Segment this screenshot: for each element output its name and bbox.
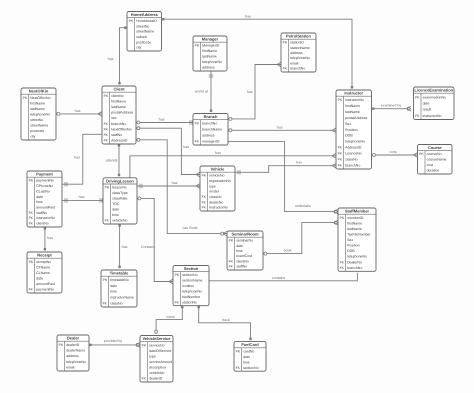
svg-text:seminarNo: seminarNo [236,239,253,243]
svg-text:PK: PK [175,273,180,277]
svg-text:CPhoneNo: CPhoneNo [36,184,53,188]
svg-text:Contains: Contains [141,245,155,249]
svg-text:FK: FK [104,127,109,131]
svg-text:PK: PK [29,179,34,183]
svg-text:branchNo: branchNo [202,122,217,126]
svg-text:type: type [149,354,156,358]
svg-text:FK: FK [338,146,343,150]
svg-text:address: address [290,51,303,55]
svg-text:vehicleNo: vehicleNo [209,174,224,178]
wire Client-Vehicle (has) [136,127,200,177]
entity NextOfKin [21,88,56,140]
svg-text:FK: FK [236,366,241,370]
svg-text:branchNo: branchNo [111,122,126,126]
entity Instructor [336,90,372,169]
svg-text:CFName: CFName [36,265,50,269]
svg-text:postalAddress: postalAddress [345,116,367,120]
svg-text:clientNo: clientNo [36,222,49,226]
svg-text:examinationNo: examinationNo [423,95,446,99]
svg-text:PK: PK [419,152,424,156]
svg-text:sectionNo: sectionNo [243,366,259,370]
svg-text:AddressID: AddressID [345,146,362,150]
svg-text:PK: PK [283,41,288,45]
svg-text:suburb: suburb [136,35,147,39]
svg-text:track: track [222,318,230,322]
svg-text:date: date [236,244,243,248]
svg-text:AddressID: AddressID [111,139,128,143]
svg-text:instructorName: instructorName [110,296,134,300]
svg-text:contains: contains [272,276,286,280]
wire Payment-DrivingLesson (has) [62,195,103,203]
svg-text:courseName: courseName [427,158,447,162]
svg-text:Sex: Sex [347,238,353,242]
svg-text:PK: PK [415,95,420,99]
svg-text:can Book: can Book [183,226,198,230]
svg-text:StaffMember: StaffMember [345,209,370,214]
svg-text:PK: PK [129,19,134,23]
svg-text:FK: FK [29,216,34,220]
svg-text:book: book [284,248,292,252]
svg-text:has: has [247,90,253,94]
svg-text:classNo: classNo [110,301,123,305]
svg-text:instructorNo: instructorNo [423,114,442,118]
svg-text:Section: Section [184,266,199,271]
svg-text:lastName: lastName [30,107,45,111]
svg-text:lastName: lastName [111,105,126,109]
svg-text:paymentNo: paymentNo [36,288,54,292]
entity Receipt [27,252,62,293]
svg-text:works at: works at [195,90,208,94]
svg-text:TOC: TOC [112,202,120,206]
svg-text:PK: PK [340,216,345,220]
wire Section-FuelCard (track) [198,306,252,341]
svg-text:telephoneNo: telephoneNo [66,360,86,364]
svg-text:dealerName: dealerName [66,349,85,353]
svg-text:telephoneNo: telephoneNo [290,56,310,60]
svg-text:duration: duration [427,169,440,173]
svg-text:Receipt: Receipt [37,253,52,258]
svg-text:Timetable: Timetable [110,271,129,276]
svg-text:FuelCard: FuelCard [241,342,259,347]
entity DrivingLesson [103,178,137,224]
svg-text:lastName: lastName [347,227,362,231]
svg-text:time: time [243,360,250,364]
svg-text:date: date [243,355,250,359]
svg-text:dealerID: dealerID [66,343,80,347]
svg-text:description: description [149,365,166,369]
svg-text:date: date [110,284,117,288]
svg-text:lastName: lastName [345,110,360,114]
svg-text:fuelNumber: fuelNumber [182,295,201,299]
svg-text:dealerID: dealerID [149,377,163,381]
svg-text:timetableNo: timetableNo [110,278,129,282]
svg-text:city: city [30,135,35,139]
wire HomeAddress-Instructor (has) [162,14,354,88]
svg-text:memberID: memberID [347,216,364,220]
svg-text:FK: FK [105,219,110,223]
entity Section [173,266,209,306]
svg-text:FK: FK [340,260,345,264]
svg-text:Course: Course [428,145,443,150]
svg-text:runs: runs [390,150,397,154]
svg-text:PK: PK [23,96,28,100]
svg-text:address: address [202,133,215,137]
svg-text:amountPaid: amountPaid [36,282,55,286]
svg-text:email: email [66,366,75,370]
svg-text:stationID: stationID [290,41,304,45]
svg-text:staffNo: staffNo [36,211,47,215]
entity Course [418,145,453,175]
svg-text:Sex: Sex [345,122,351,126]
entity Branch [193,114,228,146]
wire DrivingLesson-Section (Contains) [137,197,173,284]
svg-text:firstName: firstName [345,104,360,108]
svg-text:examCost: examCost [236,254,252,258]
svg-text:type: type [209,184,216,188]
svg-text:PK: PK [195,44,200,48]
svg-text:has: has [183,145,189,149]
svg-text:Vehicle: Vehicle [211,167,226,172]
svg-text:serviceAmount: serviceAmount [149,360,172,364]
svg-text:amountPaid: amountPaid [36,205,55,209]
svg-text:LicenceExamination: LicenceExamination [414,88,453,93]
entity Vehicle [200,166,235,211]
svg-text:cost: cost [427,163,433,167]
svg-text:streetName: streetName [136,30,154,34]
wire Branch-PetrolStation (has) [228,62,281,120]
svg-text:FK: FK [229,265,234,269]
svg-text:has: has [245,14,251,18]
svg-text:city: city [136,46,142,50]
wire Section-VehicleService (owns) [155,306,184,334]
svg-text:FK: FK [229,259,234,263]
svg-text:postcode: postcode [30,129,44,133]
svg-text:streetName: streetName [30,123,48,127]
svg-text:FK: FK [338,152,343,156]
entity PetrolStation [281,33,316,72]
svg-text:provided by: provided by [104,339,123,343]
svg-text:time: time [110,290,117,294]
wire HomeAddress-Client (has) [108,27,127,85]
svg-text:DOB: DOB [347,249,355,253]
svg-text:CLastNo: CLastNo [36,189,50,193]
entity Manager [193,36,227,71]
svg-text:lessonNo: lessonNo [112,186,127,190]
svg-text:model: model [209,190,219,194]
svg-text:has: has [215,151,221,155]
svg-text:LicenceNo: LicenceNo [345,152,362,156]
svg-text:classType: classType [112,191,128,195]
svg-text:firstName: firstName [111,99,126,103]
svg-text:sectionName: sectionName [182,279,202,283]
svg-text:telephoneNo: telephoneNo [182,289,202,293]
svg-text:dateOfService: dateOfService [149,349,171,353]
svg-text:cardNo: cardNo [243,349,254,353]
svg-text:managerID: managerID [202,139,220,143]
wire Branch-Instructor (has) [228,125,336,132]
svg-text:streetNo: streetNo [136,24,149,28]
svg-text:clientNo: clientNo [111,94,124,98]
svg-text:Client: Client [113,87,125,92]
svg-text:VehicleService: VehicleService [142,336,171,341]
svg-text:vehicleNo: vehicleNo [149,371,164,375]
wire Payment-Receipt (has) [44,227,53,251]
wire Client-Branch (has) [136,118,193,125]
svg-text:staffNo: staffNo [236,265,247,269]
svg-text:streetNo: streetNo [30,118,43,122]
entity LicenceExamination [414,87,455,120]
svg-text:PK: PK [142,343,147,347]
svg-text:telephoneNo: telephoneNo [202,60,222,64]
svg-text:FK: FK [103,301,108,305]
svg-text:owns: owns [166,315,175,319]
wire SeminarRoom-StaffMember (book) [263,220,338,255]
svg-text:DrivingLesson: DrivingLesson [106,178,134,183]
svg-text:branchNo: branchNo [345,163,360,167]
svg-text:stationName: stationName [290,46,310,50]
entity StaffMember [338,208,376,271]
svg-text:instructorNo: instructorNo [345,98,364,102]
svg-text:has: has [172,181,178,185]
svg-text:Dealer: Dealer [67,336,80,341]
svg-text:postCode: postCode [136,40,151,44]
wire Instructor-Course (runs) [372,150,418,157]
svg-text:PK: PK [202,174,207,178]
svg-text:telephoneNo: telephoneNo [347,255,367,259]
svg-text:staffNo: staffNo [111,133,122,137]
svg-text:has: has [277,125,283,129]
entity Dealer [57,335,89,371]
wire Client-SeminarRoom (can Book) [136,138,227,236]
svg-text:courseNo: courseNo [427,152,442,156]
svg-text:SeminarRoom: SeminarRoom [231,232,259,237]
svg-text:FK: FK [340,266,345,270]
svg-text:telephoneNo: telephoneNo [345,140,365,144]
svg-text:has: has [79,195,85,199]
svg-text:sectionNo: sectionNo [182,273,198,277]
svg-text:FK: FK [29,222,34,226]
svg-text:Position: Position [347,244,360,248]
svg-text:PK: PK [105,186,110,190]
svg-text:Manager: Manager [202,37,219,42]
wire Instructor-LicenceExamination (examined by) [372,103,412,111]
entity SeminarRoom [227,231,263,270]
svg-text:PK: PK [104,94,109,98]
svg-text:DealerNo: DealerNo [347,260,362,264]
svg-text:firstName: firstName [347,221,362,225]
svg-text:instructorNo: instructorNo [36,216,55,220]
svg-text:sex: sex [111,116,117,120]
wire Manager-Branch (works at) [195,71,213,112]
svg-text:FK: FK [415,114,420,118]
wire NextOfKin-Client (has) [56,109,102,116]
wire Dealer-VehicleService (provided by) [89,339,140,347]
svg-text:Payment: Payment [36,172,53,177]
svg-text:FK: FK [104,133,109,137]
svg-text:vehicleNo: vehicleNo [112,219,127,223]
svg-text:PK: PK [29,260,34,264]
svg-text:registrationNo: registrationNo [209,179,231,183]
svg-text:postalAddress: postalAddress [111,111,133,115]
svg-text:has: has [296,161,302,165]
svg-text:email: email [290,61,299,65]
wire Vehicle-Instructor (has) [235,161,336,175]
svg-text:classNo: classNo [209,195,222,199]
svg-text:time: time [36,200,43,204]
svg-text:attends: attends [106,159,118,163]
svg-text:branchNo: branchNo [290,67,305,71]
svg-text:DOB: DOB [345,134,353,138]
svg-text:time: time [112,213,119,217]
svg-text:has: has [108,57,114,61]
svg-text:date: date [112,208,119,212]
svg-text:has: has [159,118,165,122]
wire Client-Payment (has) [62,132,106,187]
svg-text:PK: PK [236,349,241,353]
svg-text:HomeAddress: HomeAddress [131,12,159,17]
svg-text:FK: FK [175,300,180,304]
svg-text:FK: FK [104,122,109,126]
svg-text:FK: FK [338,157,343,161]
svg-text:CLName: CLName [36,271,50,275]
svg-text:HoAddressID: HoAddressID [136,19,157,23]
svg-text:FK: FK [142,377,147,381]
svg-text:Branch: Branch [204,114,218,119]
svg-text:date: date [36,276,43,280]
svg-text:address: address [66,354,79,358]
wire Section-StaffMember (contains) [209,267,360,281]
svg-text:date: date [36,195,43,199]
svg-text:TaxFileNumber: TaxFileNumber [347,232,371,236]
svg-text:address: address [202,66,215,70]
svg-text:telephoneNo: telephoneNo [30,112,50,116]
svg-text:instructorNo: instructorNo [209,206,228,210]
svg-text:PetrolStation: PetrolStation [286,34,311,39]
svg-text:has: has [47,236,53,240]
svg-text:PK: PK [229,239,234,243]
svg-text:time: time [236,249,243,253]
svg-text:classNo: classNo [345,157,358,161]
svg-text:has: has [74,156,80,160]
svg-text:classRate: classRate [112,197,127,201]
svg-text:branchName: branchName [202,128,222,132]
svg-text:NextOfKinNo: NextOfKinNo [30,96,50,100]
svg-text:FK: FK [338,163,343,167]
svg-text:stationNo: stationNo [182,300,197,304]
svg-text:date: date [423,101,430,105]
svg-text:lastName: lastName [202,55,217,59]
svg-text:branchNo: branchNo [347,266,362,270]
wire DrivingLesson-Instructor (has) [130,151,336,178]
svg-text:FK: FK [283,67,288,71]
svg-text:PK: PK [59,343,64,347]
svg-text:Position: Position [345,128,358,132]
entity Timetable [101,270,137,307]
svg-text:serviceNo: serviceNo [149,343,165,347]
svg-text:NextOfKinNo: NextOfKinNo [111,127,131,131]
svg-text:location: location [182,284,194,288]
wire Branch-StaffMember (undertake) [228,142,338,214]
svg-text:FK: FK [29,288,34,292]
svg-text:PK: PK [338,98,343,102]
svg-text:result: result [423,108,432,112]
wire DrivingLesson-Timetable (has) [118,224,127,268]
svg-text:NextOfKin: NextOfKin [29,89,49,94]
entity HomeAddress [127,12,162,52]
wire DrivingLesson-Vehicle (has) [137,181,200,188]
entity Client [102,86,136,144]
svg-text:paymentNo: paymentNo [36,179,54,183]
svg-text:Instructor: Instructor [344,91,363,96]
svg-text:FK: FK [104,139,109,143]
svg-text:firstName: firstName [202,49,217,53]
entity FuelCard [234,342,266,372]
svg-text:PK: PK [103,278,108,282]
svg-text:FK: FK [202,206,207,210]
svg-text:has: has [122,245,128,249]
svg-text:dealerNo: dealerNo [209,200,223,204]
svg-text:clientNo: clientNo [236,259,249,263]
entity Payment [27,171,62,227]
svg-text:firstName: firstName [30,101,45,105]
svg-text:PK: PK [195,122,200,126]
svg-text:undertake: undertake [295,204,311,208]
svg-text:has: has [75,109,81,113]
svg-text:FK: FK [202,195,207,199]
svg-text:examined by: examined by [381,103,402,107]
svg-text:ManagerID: ManagerID [202,44,220,48]
svg-text:receiptNo: receiptNo [36,260,51,264]
svg-text:FK: FK [29,211,34,215]
wire Client-DrivingLesson (attends) [106,144,121,176]
entity VehicleService [140,336,173,383]
svg-text:FK: FK [202,200,207,204]
svg-text:FK: FK [195,139,200,143]
